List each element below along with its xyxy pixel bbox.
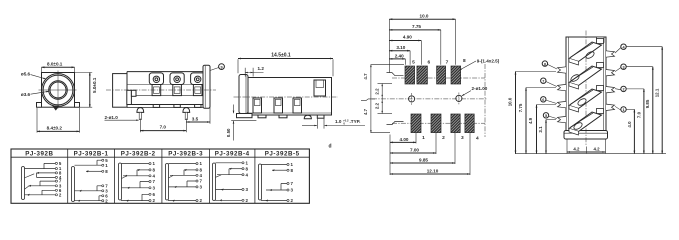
svg-text:.TYP.: .TYP.	[350, 119, 361, 124]
dim 4.2 4.2 (contact view bottom)	[567, 140, 606, 154]
right terminal lug 4	[606, 51, 615, 57]
svg-text:10.0: 10.0	[420, 13, 429, 18]
pad number labels bottom	[422, 135, 479, 141]
svg-text:6: 6	[427, 59, 430, 65]
svg-text:ø5.6: ø5.6	[21, 72, 31, 77]
svg-text:4.2: 4.2	[593, 146, 600, 151]
table cell PJ-392B schematic	[22, 161, 62, 200]
dim 14.5±0.1	[238, 52, 333, 76]
footprint centerline middle	[372, 98, 487, 100]
svg-text:7: 7	[446, 59, 449, 65]
svg-text:7.00: 7.00	[410, 147, 419, 152]
svg-text:9: 9	[220, 65, 222, 69]
opposite side view bushing	[239, 75, 248, 114]
footprint top dims common extension	[388, 19, 390, 72]
svg-text:2-ø1.0: 2-ø1.0	[105, 115, 119, 120]
dim 12.10 (footprint)	[390, 133, 470, 175]
label 2-φ1.0 with leader	[105, 115, 139, 121]
svg-text:ø3.6: ø3.6	[21, 92, 31, 97]
svg-text:8: 8	[544, 62, 546, 66]
dim 7.75 (contact view)	[518, 88, 556, 154]
table headers	[25, 150, 299, 157]
dim 8.4±0.2 (flange width)	[37, 108, 80, 133]
svg-text:8.4±0.2: 8.4±0.2	[47, 125, 63, 130]
opposite side view centerline	[234, 96, 339, 98]
svg-text:7.75: 7.75	[412, 24, 421, 29]
contact spring 3	[569, 86, 604, 113]
svg-text:12.1: 12.1	[655, 88, 660, 97]
mounting hole right	[456, 93, 462, 105]
side view solder lug terminal 3	[191, 73, 205, 96]
svg-text:2.2: 2.2	[375, 102, 380, 109]
balloon 6 (left)	[541, 97, 557, 104]
svg-text:0.50: 0.50	[226, 128, 231, 137]
table cell PJ-392B-1 schematic	[72, 158, 109, 204]
table cell PJ-392B-4 schematic	[213, 160, 249, 203]
contact spring 2	[569, 63, 604, 90]
pad 5	[405, 66, 415, 84]
svg-text:8.0±0.1: 8.0±0.1	[47, 62, 63, 67]
table cell PJ-392B-2 schematic	[119, 161, 156, 203]
svg-text:4.00: 4.00	[400, 137, 409, 142]
side view bushing barrel (protruding left)	[113, 74, 127, 108]
label φ3.6 with leader	[21, 91, 49, 97]
svg-text:1: 1	[422, 135, 425, 141]
front view crosshair centerlines	[39, 71, 77, 109]
dim 0.50	[226, 105, 234, 141]
svg-text:3: 3	[461, 135, 464, 141]
side view solder lug terminal 1	[149, 73, 163, 96]
footprint right boundary	[484, 64, 486, 137]
side view body outline	[127, 72, 203, 108]
side view foot tabs	[153, 105, 201, 108]
svg-text:2: 2	[442, 135, 445, 141]
dim 5.0±0.1 (front height)	[75, 73, 97, 108]
right terminal lug 1	[606, 104, 615, 110]
dim 7.0 (contact view right)	[636, 89, 645, 154]
contact spring 4	[569, 109, 604, 136]
contact view vertical centerline	[585, 31, 587, 147]
balloon 3 (right)	[615, 64, 653, 72]
dim 1.0 +0.2/0 TYP	[302, 118, 365, 128]
front view body	[37, 73, 80, 108]
svg-text:d: d	[328, 144, 331, 150]
opposite side view channel 3	[293, 98, 302, 113]
svg-text:2.40: 2.40	[395, 53, 404, 58]
svg-text:7.0: 7.0	[636, 111, 641, 118]
side view horizontal centerline	[106, 89, 216, 91]
dim 4.90 (footprint)	[389, 35, 421, 65]
left terminal lug 6	[558, 101, 567, 107]
svg-text:9-(1.4x2.5): 9-(1.4x2.5)	[477, 59, 500, 64]
dim 3.10 (footprint)	[389, 45, 410, 65]
dim 10.0 (contact view)	[507, 72, 556, 154]
contact view bottom cap	[564, 131, 608, 140]
dim 2.40 (footprint)	[389, 53, 405, 65]
footprint left dim column 4.7/4.7	[363, 65, 404, 133]
svg-text:9.85: 9.85	[645, 99, 650, 108]
pad 8	[451, 66, 461, 84]
svg-text:5: 5	[412, 59, 415, 65]
dim 4.00 (footprint)	[390, 133, 416, 144]
svg-text:PJ-392B-4: PJ-392B-4	[215, 150, 250, 157]
footprint centerline top row	[392, 77, 485, 79]
svg-text:2.2: 2.2	[375, 88, 380, 95]
svg-text:3.10: 3.10	[396, 45, 405, 50]
table cell PJ-392B-5 schematic	[259, 162, 294, 203]
dim 7.00 (footprint)	[390, 133, 436, 154]
balloon 8 (left)	[542, 61, 557, 69]
svg-text:PJ-392B-2: PJ-392B-2	[121, 150, 156, 157]
left terminal lug 7	[558, 84, 567, 90]
dim 3.1 (contact view)	[538, 120, 556, 154]
dim 4.9 (contact view)	[528, 105, 556, 154]
label 9-(1.4x2.5) with leader	[459, 59, 500, 71]
svg-text:2-ø1.00: 2-ø1.00	[472, 86, 488, 91]
left terminal lug 5	[558, 116, 567, 122]
svg-text:4.7: 4.7	[363, 108, 368, 115]
pad 7	[437, 66, 446, 84]
pad 4	[465, 114, 474, 133]
svg-text:7.75: 7.75	[518, 103, 523, 112]
label φ5.6 with leader	[21, 72, 46, 80]
pad 3	[451, 114, 460, 133]
balloon 4 (right)	[615, 44, 662, 53]
right terminal lug 2	[606, 87, 615, 93]
opposite side view channel 1	[253, 98, 262, 113]
left terminal lug 8	[558, 67, 567, 73]
side view solder lug terminal 2	[170, 73, 184, 96]
footprint left dim column 2.2/2.2	[375, 84, 392, 114]
pad 1	[411, 114, 421, 133]
svg-text:PJ-392B-1: PJ-392B-1	[74, 150, 109, 157]
contact view body	[566, 37, 606, 134]
dim 3.5 (side view)	[186, 108, 210, 124]
dim 8.0±0.1 (front width)	[42, 62, 75, 73]
svg-text:4.90: 4.90	[403, 35, 412, 40]
balloon 1 (right)	[615, 106, 634, 112]
opposite side view feet	[258, 115, 324, 119]
svg-text:4: 4	[476, 135, 479, 141]
svg-text:PJ-392B-5: PJ-392B-5	[265, 150, 300, 157]
opposite side view body	[248, 78, 332, 116]
svg-text:1.0: 1.0	[335, 119, 342, 124]
contact view bottom reference line	[515, 153, 666, 155]
svg-text:6: 6	[542, 98, 544, 102]
balloon 2 (right)	[615, 86, 644, 91]
svg-text:9.85: 9.85	[419, 157, 428, 162]
front view jack opening circles	[42, 74, 75, 110]
svg-text:7: 7	[542, 79, 544, 83]
svg-text:2: 2	[622, 88, 624, 92]
svg-text:4.7: 4.7	[363, 73, 368, 80]
contact view top anchor	[597, 37, 605, 43]
svg-text:3.1: 3.1	[538, 126, 543, 133]
svg-text:10.0: 10.0	[507, 97, 512, 106]
svg-text:5: 5	[545, 114, 547, 118]
svg-text:4.2: 4.2	[573, 146, 580, 151]
svg-text:14.5±0.1: 14.5±0.1	[271, 52, 291, 58]
svg-text:4.0: 4.0	[627, 121, 632, 128]
dim 7.75 (footprint)	[389, 24, 441, 65]
contact spring 1	[569, 39, 604, 66]
footprint outline steps	[387, 73, 404, 125]
svg-text:12.10: 12.10	[427, 168, 439, 173]
svg-text:3: 3	[622, 65, 624, 69]
mounting hole left	[409, 93, 415, 105]
balloon 9 callout	[210, 64, 224, 71]
right terminal lug 3	[606, 70, 615, 76]
dim 1.2	[245, 66, 264, 76]
dim 9.85 (contact view right)	[645, 67, 654, 154]
table cell PJ-392B-3 schematic	[166, 161, 203, 203]
svg-text:3.5: 3.5	[192, 116, 199, 121]
side view right shield plate	[203, 65, 210, 108]
dim 9.85 (footprint)	[390, 133, 455, 164]
svg-text:PJ-392B: PJ-392B	[25, 150, 53, 157]
dim 12.1 (contact view right)	[655, 47, 664, 154]
svg-text:8: 8	[463, 58, 466, 64]
dim 10.0 (footprint)	[389, 13, 455, 64]
dim 7.0 (pin spacing side view)	[140, 119, 186, 133]
pad number labels top	[412, 58, 466, 66]
svg-text:1.2: 1.2	[258, 66, 265, 71]
dim 4.0 (contact view right)	[627, 109, 636, 153]
footprint centerline bottom row	[392, 122, 485, 124]
balloon 7 (left)	[541, 78, 557, 87]
opposite side view channel 2	[274, 98, 283, 113]
pad 2	[431, 114, 441, 133]
pad 6	[417, 66, 428, 84]
svg-text:7.0: 7.0	[160, 125, 167, 130]
opposite side view flange foot	[231, 114, 256, 121]
side view pin 1 (mushroom head)	[137, 108, 144, 120]
label 2-φ1.00 with leader	[462, 86, 488, 96]
side view pin 2 (mushroom head)	[183, 108, 190, 120]
footprint left step at centerline	[361, 99, 375, 101]
balloon 5 (left)	[543, 113, 557, 119]
svg-text:1: 1	[622, 108, 624, 112]
svg-text:5.0±0.1: 5.0±0.1	[92, 77, 97, 93]
opposite side view top-right terminal	[314, 80, 326, 96]
footprint bottom dims common extension	[389, 135, 391, 176]
svg-text:PJ-392B-3: PJ-392B-3	[168, 150, 203, 157]
side view left channel	[127, 90, 136, 104]
svg-text:4.9: 4.9	[528, 117, 533, 124]
table frame	[11, 149, 309, 203]
